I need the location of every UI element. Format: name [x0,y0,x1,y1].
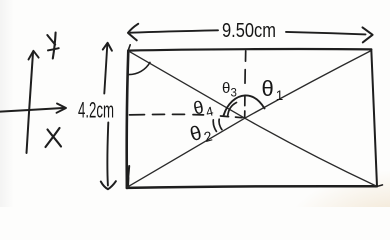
rectangle left edge double stroke near bottom [128,166,129,187]
label theta2 [188,119,214,148]
svg-text:θ: θ [222,80,230,97]
label y [53,33,56,59]
y axis shaft [27,53,34,154]
rectangle left edge [127,51,129,188]
dimension arrow 4.2cm lower shaft [106,123,109,186]
diagonal TL-BR [129,51,376,186]
svg-text:3: 3 [231,88,237,100]
corner overshoot tick bottom-right [376,185,383,187]
diagonal BL-TR [128,51,371,187]
inner angle arc upper-left [228,103,237,116]
dimension arrow 9.50cm left arrowhead [128,24,138,41]
dimension arrow 4.2cm top arrowhead [103,43,112,51]
corner ink blob bottom-left [126,178,130,187]
dimension arrow 9.50cm right line [286,32,366,35]
label theta4 [192,95,215,122]
paper inside rectangle stays white [127,49,377,188]
svg-text:9.50cm: 9.50cm [222,20,276,42]
dimension arrow 9.50cm right arrowhead [363,27,373,42]
double tick arc inner (theta2 region) [219,119,222,129]
label 9.50cm [78,20,283,149]
dimension arrow 9.50cm left line [131,30,219,32]
corner angle arc at top-left [128,62,150,74]
svg-text:4.2cm: 4.2cm [78,98,114,123]
rectangle right edge [371,49,377,186]
svg-text:θ: θ [262,76,274,101]
rectangle bottom edge [127,186,377,188]
rectangle top edge [128,49,371,51]
x axis shaft [0,108,63,112]
double tick arc outer (theta2 region) [213,120,216,131]
label x [48,130,62,147]
dashed horizontal line from left edge to center [130,114,243,117]
rectangle corner tick top-left [128,45,130,51]
svg-text:1: 1 [276,88,284,103]
x axis arrowhead [57,104,67,113]
dimension arrow 4.2cm bottom arrowhead [101,181,116,189]
dashed vertical line from top edge to center [245,51,246,117]
big angle arc over center [224,95,265,115]
y axis arrowhead [29,51,39,60]
dimension arrow 4.2cm upper shaft [104,45,107,94]
